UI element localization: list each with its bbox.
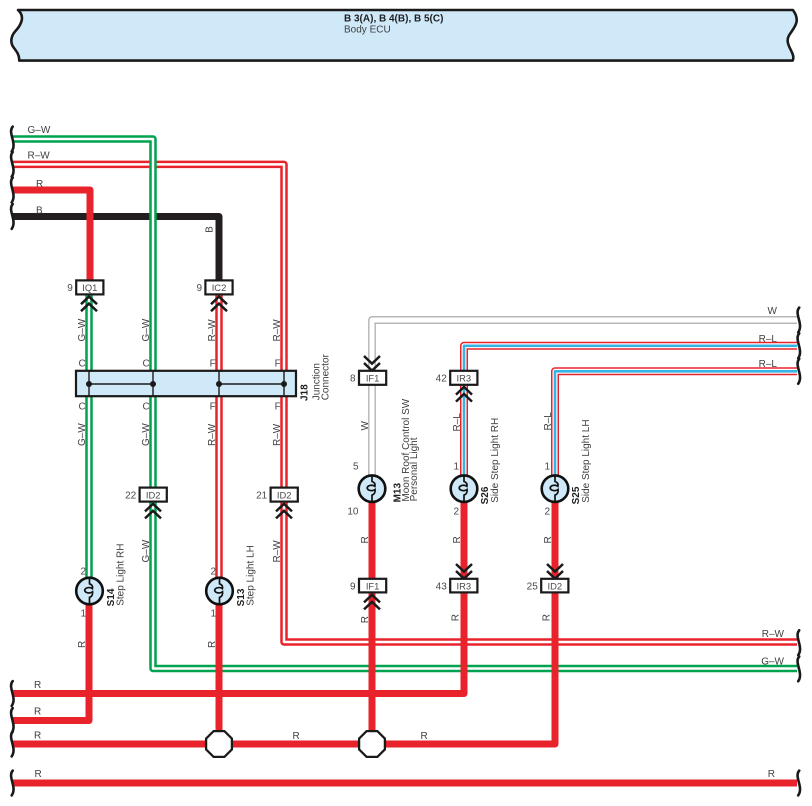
break symbol left bus3 <box>11 732 13 757</box>
svg-text:R–W: R–W <box>272 319 283 342</box>
lamp M13 Moon Roof Control SW Personal Light <box>359 475 386 502</box>
svg-text:IR3: IR3 <box>457 580 472 591</box>
svg-text:IC2: IC2 <box>212 282 227 293</box>
svg-text:R–L: R–L <box>543 412 554 431</box>
svg-text:ID2: ID2 <box>277 489 292 500</box>
svg-text:2: 2 <box>544 507 550 518</box>
svg-text:9: 9 <box>196 283 202 294</box>
svg-text:C: C <box>78 358 85 369</box>
connector IQ1 pin 9 <box>67 280 103 311</box>
connector IF1 pin 9 <box>350 579 386 610</box>
svg-text:8: 8 <box>350 374 356 385</box>
break symbol left B <box>11 204 13 229</box>
connector ID2 pin 21 <box>256 488 298 519</box>
svg-text:10: 10 <box>347 507 359 518</box>
svg-text:R: R <box>36 179 43 190</box>
wire R (col7 lower + bus3 to left edge) <box>13 501 556 744</box>
svg-text:R: R <box>34 707 41 718</box>
wire W (right, to IF1 8 and M13) <box>372 320 797 477</box>
break symbol right R-W <box>798 630 800 655</box>
svg-text:Step Light LH: Step Light LH <box>245 545 256 606</box>
break symbol right R-L <box>798 333 800 358</box>
svg-text:IF1: IF1 <box>366 373 380 384</box>
svg-text:ID2: ID2 <box>548 580 563 591</box>
svg-text:R–W: R–W <box>762 629 785 640</box>
svg-text:Personal Light: Personal Light <box>409 437 420 501</box>
svg-text:R: R <box>768 769 775 780</box>
svg-text:1: 1 <box>453 461 459 472</box>
svg-text:R: R <box>421 731 428 742</box>
svg-text:R: R <box>293 731 300 742</box>
break symbol left R <box>11 178 13 203</box>
svg-text:F: F <box>275 401 281 412</box>
wire G-W (col2 lower, ID2 22 to right edge) <box>153 501 797 669</box>
connector IR3 pin 43 <box>436 564 478 592</box>
svg-text:G–W: G–W <box>761 656 784 667</box>
wire R (col1 lower, S14 to left edge bus2) <box>13 604 90 721</box>
svg-text:W: W <box>360 421 371 431</box>
svg-text:5: 5 <box>353 461 359 472</box>
wire R (bus4 full width) <box>13 780 798 787</box>
svg-text:F: F <box>210 358 216 369</box>
Body ECU banner <box>11 10 796 61</box>
svg-text:IF1: IF1 <box>366 580 380 591</box>
svg-text:G–W: G–W <box>141 423 152 446</box>
wire R-W (top horizontal, down at col4 to ID2 21) <box>13 164 285 487</box>
lamp S14 Step Light RH <box>76 578 103 605</box>
svg-text:IR3: IR3 <box>457 373 472 384</box>
break symbol right W <box>798 308 800 333</box>
wire R (thick red, to IQ1) <box>13 190 91 281</box>
svg-text:B: B <box>205 226 216 233</box>
svg-text:C: C <box>142 401 149 412</box>
svg-text:43: 43 <box>436 581 448 592</box>
svg-text:R: R <box>207 641 218 648</box>
connector ID2 pin 25 <box>527 564 569 592</box>
svg-text:C: C <box>78 401 85 412</box>
svg-text:2: 2 <box>453 507 459 518</box>
svg-text:R–L: R–L <box>452 413 463 432</box>
wire B (black) <box>13 217 220 281</box>
svg-text:25: 25 <box>527 581 539 592</box>
svg-text:G–W: G–W <box>28 125 51 136</box>
svg-text:ID2: ID2 <box>146 489 161 500</box>
svg-text:R: R <box>542 614 553 621</box>
break symbol left bus4 <box>11 771 13 796</box>
svg-text:G–W: G–W <box>77 423 88 446</box>
svg-text:G–W: G–W <box>141 318 152 341</box>
svg-text:R: R <box>77 641 88 648</box>
svg-text:F: F <box>210 401 216 412</box>
svg-text:1: 1 <box>544 461 550 472</box>
svg-text:R: R <box>451 614 462 621</box>
svg-text:G–W: G–W <box>77 318 88 341</box>
svg-text:R–W: R–W <box>272 540 283 563</box>
wire R-L (right lower, to S25) <box>555 371 797 477</box>
svg-text:1: 1 <box>80 609 86 620</box>
wire G-W (col1, IQ1 to S14) <box>85 296 93 579</box>
svg-text:R: R <box>543 536 554 543</box>
svg-text:R: R <box>34 731 41 742</box>
wire G-W (top horizontal, down at col2 to ID2 22) <box>13 139 154 488</box>
svg-text:IQ1: IQ1 <box>82 282 97 293</box>
lamp S26 Side Step Light RH <box>451 475 478 502</box>
node octagon (S13 branch on bus3) <box>206 731 232 757</box>
svg-text:22: 22 <box>125 490 137 501</box>
svg-text:B 3(A), B 4(B), B 5(C): B 3(A), B 4(B), B 5(C) <box>344 13 443 24</box>
svg-text:42: 42 <box>436 374 448 385</box>
break symbol left bus1 <box>11 681 13 706</box>
svg-text:Connector: Connector <box>320 353 331 400</box>
svg-text:Side Step Light LH: Side Step Light LH <box>581 419 592 502</box>
svg-text:2: 2 <box>80 567 86 578</box>
svg-text:R: R <box>35 769 42 780</box>
junction connector J18 <box>76 353 331 401</box>
svg-text:B: B <box>36 205 43 216</box>
wire R (col5 lower, M13 to octagon) <box>369 501 376 732</box>
connector IF1 pin 8 <box>350 356 386 385</box>
svg-text:R–W: R–W <box>28 151 51 162</box>
connector ID2 pin 22 <box>125 488 167 519</box>
node octagon (M13 branch on bus3) <box>359 731 385 757</box>
svg-text:R–W: R–W <box>207 423 218 446</box>
wire R-W (col3, IC2 to S13) <box>215 296 223 579</box>
svg-text:R: R <box>360 616 371 623</box>
break symbol left R-W <box>11 152 13 177</box>
svg-text:Body ECU: Body ECU <box>344 24 391 35</box>
svg-text:C: C <box>142 358 149 369</box>
svg-text:R: R <box>360 536 371 543</box>
connector IR3 pin 42 <box>436 371 478 402</box>
connector IC2 pin 9 <box>196 280 232 311</box>
lamp S13 Step Light LH <box>206 578 233 605</box>
svg-text:R–L: R–L <box>759 359 778 370</box>
break symbol left G-W <box>11 127 13 152</box>
wire R (col3 lower, S13 to octagon) <box>216 604 223 733</box>
break symbol right R-L lower <box>798 359 800 384</box>
break symbol right G-W <box>798 657 800 682</box>
svg-text:21: 21 <box>256 490 268 501</box>
svg-text:2: 2 <box>210 567 216 578</box>
svg-text:G–W: G–W <box>141 539 152 562</box>
svg-text:W: W <box>768 306 778 317</box>
svg-text:Side Step Light RH: Side Step Light RH <box>490 418 501 503</box>
svg-text:9: 9 <box>350 581 356 592</box>
wire R-W (col4 lower, ID2 21 to right edge) <box>284 501 797 642</box>
svg-text:R: R <box>34 680 41 691</box>
svg-text:F: F <box>275 358 281 369</box>
wire R (col6 lower + bus1 to left edge) <box>13 501 465 694</box>
svg-text:J18: J18 <box>300 384 311 401</box>
svg-text:R–W: R–W <box>272 423 283 446</box>
wire R-L (right, to IR3 42 and S26) <box>464 346 797 477</box>
svg-text:R–L: R–L <box>759 334 778 345</box>
svg-text:1: 1 <box>210 609 216 620</box>
svg-text:9: 9 <box>67 283 73 294</box>
svg-text:R: R <box>452 536 463 543</box>
break symbol right bus4 <box>798 771 800 796</box>
break symbol left bus2 <box>11 708 13 733</box>
svg-text:R–W: R–W <box>207 319 218 342</box>
svg-text:Step Light RH: Step Light RH <box>115 544 126 606</box>
lamp S25 Side Step Light LH <box>542 475 569 502</box>
